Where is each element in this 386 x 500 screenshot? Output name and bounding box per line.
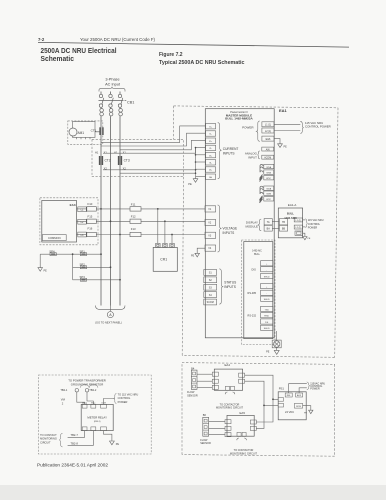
wire control power to relay (104, 399, 115, 405)
junction dots phase taps (100, 208, 121, 235)
transformer EA3 (42, 201, 77, 243)
svg-text:TB2-8: TB2-8 (71, 441, 79, 445)
svg-text:INPUTS: INPUTS (223, 231, 235, 235)
relay coil squiggles (260, 165, 264, 203)
svg-text:STATUS: STATUS (224, 281, 236, 285)
svg-text:L2 (1): L2 (1) (296, 227, 302, 229)
svg-text:Publication 2364E-5.01 April 2: Publication 2364E-5.01 April 2002 (37, 463, 109, 468)
svg-text:POWER: POWER (242, 125, 254, 129)
svg-text:SCOM: SCOM (207, 301, 214, 304)
svg-text:AC Input: AC Input (105, 82, 121, 86)
svg-text:I3-: I3- (209, 163, 212, 165)
svg-text:INPUTS: INPUTS (224, 285, 236, 289)
brace display module (258, 219, 261, 231)
wire relay out 1 (68, 431, 85, 438)
svg-text:RXD: RXD (264, 316, 269, 318)
header (38, 37, 349, 66)
wires EA5 to bus (245, 375, 273, 399)
EA5 bottom cable curls (225, 392, 235, 394)
current transformer CT2 (100, 156, 103, 165)
svg-text:CIRCUIT: CIRCUIT (40, 440, 51, 444)
svg-text:BA: BA (267, 228, 271, 231)
svg-text:PE: PE (284, 146, 288, 149)
circuit breaker CB1 (99, 94, 127, 107)
svg-text:SENSOR: SENSOR (200, 442, 211, 445)
display power terminal E&S (295, 231, 303, 235)
RS-232 terminals (261, 306, 273, 330)
svg-text:H1: H1 (95, 151, 99, 155)
wire CT secondary run 6 (120, 172, 196, 174)
svg-text:(RM-1): (RM-1) (94, 421, 101, 423)
ground at V4 (195, 248, 205, 257)
PS1 RCB terminal (294, 403, 302, 408)
svg-text:MODULE: MODULE (246, 224, 258, 228)
svg-text:MONITORING CIRCUIT: MONITORING CIRCUIT (230, 453, 258, 456)
power terminal L2 (262, 128, 274, 133)
svg-text:W1C: W1C (266, 178, 271, 180)
wire CT secondary run 3 (120, 140, 206, 149)
monitor enclosure dashed bottom (182, 363, 335, 457)
wire BA-BB (272, 227, 279, 229)
svg-text:PE: PE (188, 182, 192, 186)
svg-text:TB2-7: TB2-7 (71, 433, 79, 437)
wire CT secondary run 5 (103, 169, 196, 171)
wire row 1 to V1 (77, 208, 87, 210)
wire phase C stub (119, 92, 121, 95)
svg-text:AUX: AUX (297, 394, 302, 397)
PS1 input pins (278, 398, 283, 402)
terminal L1 (78, 207, 87, 212)
op-amp U1 master module box (205, 109, 274, 338)
wire row 3 to V3 (77, 234, 87, 236)
PS1 top terminals (285, 393, 292, 397)
wires PS1 to control power (289, 384, 307, 393)
meter relay enclosure dashed (38, 375, 151, 454)
svg-text:L1 (1): L1 (1) (265, 124, 271, 127)
display power terminal L2 (294, 225, 302, 229)
svg-text:I2-: I2- (209, 148, 212, 150)
svg-text:TXD: TXD (265, 309, 270, 311)
ammeter AM1 (73, 122, 96, 138)
branch bus (72, 254, 74, 280)
svg-text:PS1: PS1 (279, 387, 285, 391)
svg-text:AIN: AIN (266, 148, 270, 151)
surge arrester SP3 (73, 279, 120, 281)
display power terminal L1 (294, 218, 302, 222)
svg-text:L2 (1): L2 (1) (265, 130, 271, 133)
svg-text:TA: TA (267, 221, 270, 224)
node 3-Phase AC Input label (105, 78, 121, 87)
svg-text:Figure 7.2: Figure 7.2 (159, 52, 183, 58)
svg-text:F15: F15 (88, 214, 93, 218)
relay output terminals W1A-W2C (264, 164, 274, 201)
svg-text:POWER: POWER (308, 227, 318, 230)
wires B6 to EA6 (209, 422, 225, 435)
transformer box EA3 dashed (40, 198, 98, 245)
svg-text:EA5: EA5 (240, 411, 246, 415)
svg-text:Schematic: Schematic (41, 55, 75, 63)
svg-text:F10: F10 (88, 202, 93, 206)
meter relay box (81, 404, 113, 430)
ammeter box dashed (68, 121, 103, 144)
svg-text:EA1-A: EA1-A (288, 203, 296, 207)
wire TB2-2 to relay (87, 392, 93, 405)
terminal COMMON (42, 235, 66, 241)
svg-text:B6: B6 (203, 413, 207, 417)
current input terminals (206, 124, 216, 180)
svg-text:BULL: BULL (254, 254, 260, 256)
svg-text:SHLD: SHLD (264, 299, 270, 301)
svg-text:SENSOR: SENSOR (187, 395, 198, 398)
surge arrester SP2 (73, 266, 111, 268)
svg-text:ACOM: ACOM (264, 156, 271, 159)
svg-text:PE: PE (116, 443, 120, 446)
svg-text:VOLTAGE: VOLTAGE (223, 227, 238, 231)
brace meter control power (114, 393, 117, 403)
svg-text:W2B: W2B (266, 194, 271, 196)
breaker element loops phase B (109, 107, 113, 117)
wire riser to terminals 5-8 (196, 147, 206, 176)
relay CR1 (158, 209, 172, 244)
wire AM1 to CT1 (95, 131, 100, 133)
svg-text:CT2: CT2 (105, 159, 111, 163)
wire phase A down (100, 117, 102, 306)
brace status inputs (219, 269, 223, 304)
svg-text:CR1: CR1 (160, 257, 167, 261)
display terminal TA (264, 219, 272, 225)
svg-text:E&S: E&S (266, 138, 271, 141)
svg-text:INPUTS: INPUTS (223, 152, 235, 156)
display terminal BB (279, 225, 287, 231)
wires into PS1 (273, 398, 278, 400)
svg-text:X1: X1 (104, 151, 108, 155)
cable arcs (81, 384, 98, 387)
wire CT secondary run 4 (103, 148, 206, 154)
brace display power (305, 219, 307, 228)
wire phase A stub (100, 92, 102, 95)
svg-text:115 VAC NRU: 115 VAC NRU (308, 219, 324, 222)
RS-485 terminals (261, 284, 273, 302)
terminal L2 (78, 219, 87, 224)
svg-text:CONTROL POWER: CONTROL POWER (305, 125, 331, 129)
svg-text:RS-232: RS-232 (248, 315, 257, 318)
breaker element loops phase C (119, 107, 123, 117)
svg-text:TB2-1: TB2-1 (60, 388, 68, 392)
svg-text:SH: SH (209, 177, 212, 179)
ground at rail (38, 254, 43, 271)
breaker element loops phase A (100, 107, 104, 117)
svg-text:TB2-2: TB2-2 (89, 388, 97, 392)
wire CT secondary run 1 (101, 126, 206, 142)
svg-text:L1 (1): L1 (1) (296, 220, 302, 222)
wire phase B stub (110, 92, 112, 95)
svg-text:PE: PE (266, 351, 270, 354)
svg-text:(GO TO NEXT PANEL): (GO TO NEXT PANEL) (95, 321, 122, 325)
svg-text:W1A: W1A (266, 166, 271, 169)
svg-text:EA1: EA1 (279, 108, 288, 113)
enclosure CT sensing dashed (92, 139, 184, 176)
wires B4 to EA5 (197, 374, 212, 387)
svg-text:F11: F11 (131, 202, 136, 206)
wire L1 to control power (274, 123, 300, 125)
svg-text:CURRENT: CURRENT (223, 147, 239, 151)
svg-text:CONTROL: CONTROL (308, 223, 321, 226)
display terminal BA (264, 225, 272, 231)
svg-text:POWER: POWER (310, 387, 320, 390)
svg-text:7-2: 7-2 (38, 37, 45, 42)
svg-text:F13: F13 (131, 227, 136, 231)
wire row 2 to V2 (77, 220, 87, 222)
terminal L3 (78, 232, 87, 237)
svg-text:SHLD: SHLD (264, 276, 270, 278)
svg-text:W1B: W1B (266, 172, 271, 174)
digital terminals (261, 261, 273, 279)
svg-text:CT1: CT1 (91, 128, 97, 132)
wire relay out 2 (68, 431, 94, 446)
brace analog (258, 151, 260, 159)
svg-text:DS: DS (265, 322, 269, 324)
svg-text:I1-: I1- (209, 134, 212, 136)
comms module dashed box EA2 (241, 240, 275, 345)
ground at PS1 (303, 406, 311, 411)
svg-text:TO 115 VAC NRU: TO 115 VAC NRU (118, 392, 139, 396)
off page connector A (96, 306, 126, 312)
svg-text:PE: PE (191, 255, 195, 258)
display terminal TB (279, 219, 287, 225)
svg-text:Typical 2500A DC NRU Schematic: Typical 2500A DC NRU Schematic (159, 60, 245, 66)
voltage input terminals V1-V4 (205, 206, 216, 251)
svg-text:EA3: EA3 (70, 203, 76, 207)
meter relay bottom terminals (82, 427, 106, 431)
ground at E&S (274, 139, 282, 148)
svg-text:W2C: W2C (266, 199, 271, 201)
svg-text:2500A DC NRU Electrical: 2500A DC NRU Electrical (41, 47, 117, 55)
wire L2 to control power (274, 130, 300, 132)
power terminal L1 (262, 122, 274, 127)
brace contact monitoring (59, 433, 62, 447)
svg-text:CONTROL: CONTROL (118, 396, 131, 400)
brace control power (300, 121, 303, 133)
status input terminals S1-SCOM (204, 270, 217, 305)
svg-text:CB1: CB1 (127, 100, 134, 104)
svg-text:CT3: CT3 (124, 159, 130, 163)
ground shield arrow (193, 176, 198, 182)
svg-text:Your 2500A DC NRU (Current Cod: Your 2500A DC NRU (Current Code F) (80, 37, 156, 42)
svg-text:RS-485: RS-485 (248, 292, 257, 295)
surge arrester rail (40, 253, 101, 255)
brace over incoming phases (99, 87, 125, 91)
wire phase C down (119, 117, 121, 306)
EA6 bottom cable curls (237, 438, 247, 440)
svg-text:METER RELAY: METER RELAY (87, 416, 107, 420)
power terminal E&S (262, 136, 274, 141)
ground at display E&S (303, 233, 307, 240)
brace power (257, 121, 260, 141)
svg-text:BULL: BULL (287, 212, 295, 216)
svg-text:1492-AIC: 1492-AIC (252, 250, 262, 253)
meter relay top terminals (82, 404, 106, 408)
svg-text:MONITORING CIRCUIT: MONITORING CIRCUIT (216, 407, 244, 410)
wire display L2 out (303, 226, 306, 228)
svg-text:W2A: W2A (266, 188, 271, 191)
svg-text:24 VDC: 24 VDC (285, 410, 294, 414)
svg-text:BULL 1492-MM23A: BULL 1492-MM23A (225, 116, 252, 120)
svg-text:X1: X1 (123, 151, 127, 155)
svg-text:3-Phase: 3-Phase (105, 78, 119, 82)
svg-text:DIG: DIG (252, 269, 257, 272)
enclosure EA1 dashed (174, 106, 338, 357)
svg-text:EA4: EA4 (225, 363, 231, 367)
svg-text:SHLD: SHLD (264, 328, 270, 330)
current transformer CT1 (100, 127, 103, 135)
wires EA6 to bus (256, 399, 273, 422)
wire TA-TB (272, 221, 279, 223)
junction dots bus (195, 169, 197, 171)
analog input ACOM (262, 155, 274, 159)
wire relay out 3 ground (104, 431, 112, 441)
svg-text:H1: H1 (114, 151, 118, 155)
wire phase B down (110, 117, 112, 306)
svg-text:BB: BB (282, 228, 286, 231)
svg-text:COMMON: COMMON (48, 236, 61, 240)
analog input AIN (262, 147, 274, 151)
svg-text:RCB: RCB (296, 406, 301, 408)
wire display L1 out (303, 219, 306, 221)
brace voltage inputs (218, 205, 222, 252)
svg-text:TO CONTACT: TO CONTACT (40, 433, 57, 437)
current transformer CT3 (119, 156, 122, 165)
svg-text:POWER: POWER (118, 400, 128, 404)
comms module box (244, 242, 273, 339)
svg-text:F16: F16 (88, 227, 93, 231)
wire CT secondary run 2 (101, 133, 206, 146)
svg-text:TB: TB (282, 221, 285, 224)
wire TB2-1 to relay (77, 392, 85, 405)
svg-text:AM1: AM1 (78, 131, 85, 135)
brace current inputs (218, 123, 221, 179)
svg-text:PE: PE (44, 270, 48, 273)
svg-text:F12: F12 (131, 215, 136, 219)
svg-text:MONITORING: MONITORING (40, 437, 57, 441)
svg-text:INPUT: INPUT (248, 155, 257, 159)
comm connector circle (272, 331, 281, 354)
